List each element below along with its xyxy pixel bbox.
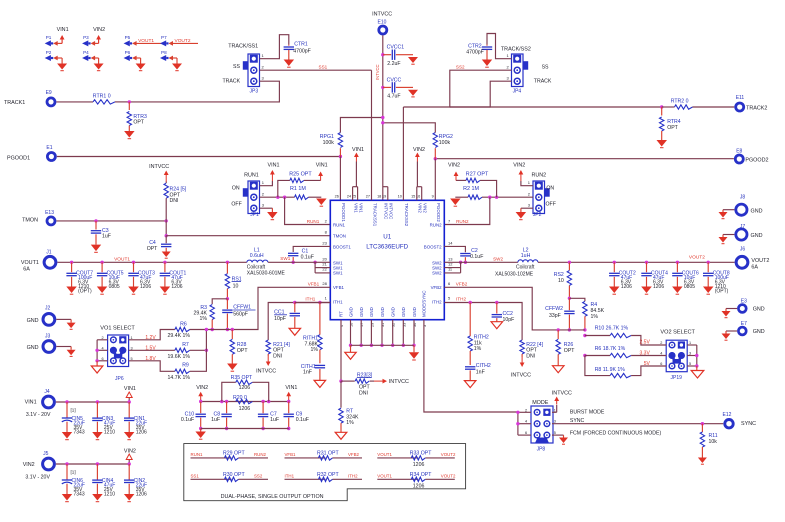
- capacitor C8: [226, 402, 228, 414]
- svg-text:1nF: 1nF: [476, 370, 485, 376]
- capacitor CC1 10pF: [294, 303, 296, 313]
- svg-text:INTVCC: INTVCC: [389, 379, 409, 385]
- svg-text:GND: GND: [27, 318, 39, 324]
- svg-text:E1: E1: [46, 145, 52, 151]
- svg-text:VOUT1: VOUT1: [21, 260, 39, 266]
- svg-text:1.2V: 1.2V: [145, 335, 156, 341]
- wire JP8 common: [518, 411, 531, 413]
- svg-text:GND: GND: [412, 307, 417, 317]
- ground: [128, 126, 130, 132]
- svg-text:ON: ON: [232, 185, 240, 191]
- resistor RTR1 0: [56, 101, 93, 103]
- capacitor C9: [288, 402, 290, 414]
- ground: [553, 366, 565, 373]
- svg-text:RUN1: RUN1: [333, 223, 346, 228]
- svg-text:19.6K 1%: 19.6K 1%: [168, 354, 191, 360]
- svg-text:VOUT2: VOUT2: [441, 452, 456, 457]
- svg-text:VIN2: VIN2: [196, 385, 208, 391]
- svg-text:J4: J4: [44, 389, 50, 395]
- svg-text:GND: GND: [27, 345, 39, 351]
- svg-text:PGOOD2: PGOOD2: [436, 203, 441, 222]
- svg-text:SW1: SW1: [333, 271, 343, 276]
- svg-text:7343: 7343: [74, 492, 85, 498]
- svg-text:TRACKSS1: TRACKSS1: [372, 203, 377, 227]
- svg-text:CVCC: CVCC: [387, 77, 402, 83]
- svg-text:27: 27: [366, 195, 370, 199]
- power flag VIN1: [288, 395, 290, 402]
- svg-text:VIN2: VIN2: [513, 163, 525, 169]
- ground: [288, 50, 290, 60]
- ground: [140, 58, 142, 64]
- ground: [289, 328, 301, 335]
- ground: [227, 364, 238, 371]
- svg-text:0.1uF: 0.1uF: [470, 254, 483, 260]
- svg-text:VFB1: VFB1: [285, 452, 297, 457]
- svg-text:DNI: DNI: [273, 353, 282, 359]
- svg-text:PGOOD1: PGOOD1: [341, 203, 346, 222]
- svg-text:XAL5030-601ME: XAL5030-601ME: [247, 270, 286, 276]
- svg-text:5V: 5V: [644, 361, 651, 367]
- wire TMON: [56, 220, 166, 222]
- svg-text:VIN1: VIN1: [268, 163, 280, 169]
- wire VFB2 net: [444, 287, 585, 330]
- svg-text:6A: 6A: [23, 267, 30, 273]
- svg-text:XAL5030-102ME: XAL5030-102ME: [495, 272, 534, 278]
- svg-text:GND: GND: [348, 307, 353, 317]
- svg-text:VFB1: VFB1: [333, 285, 345, 290]
- ground: [70, 347, 72, 350]
- ground: [200, 429, 202, 432]
- resistor R28 OPT: [231, 328, 234, 331]
- wire JP19 common ground: [687, 344, 697, 346]
- svg-text:TRACK/SS1: TRACK/SS1: [228, 44, 258, 50]
- svg-text:3.3V: 3.3V: [640, 350, 651, 356]
- capacitor C4 OPT: [165, 236, 167, 244]
- svg-text:5: 5: [554, 431, 556, 435]
- wire MODE/SYNC: [424, 320, 518, 412]
- ground JP8 pin FCM: [552, 434, 564, 436]
- svg-text:DNI: DNI: [359, 390, 368, 396]
- svg-text:TRACK: TRACK: [223, 79, 241, 85]
- svg-text:INTVCC: INTVCC: [552, 390, 572, 396]
- svg-text:1206: 1206: [171, 284, 182, 290]
- ground: [62, 432, 72, 439]
- resistor R8 11.9K: [585, 356, 610, 376]
- svg-text:ITH2: ITH2: [348, 474, 358, 479]
- svg-text:INTVCC: INTVCC: [384, 203, 389, 219]
- svg-text:MODE/SYNC: MODE/SYNC: [422, 290, 427, 317]
- svg-text:VIN2: VIN2: [124, 448, 136, 454]
- svg-text:1%: 1%: [311, 347, 319, 353]
- wire TRACK2: [450, 106, 662, 108]
- svg-text:RTR1 0: RTR1 0: [93, 93, 111, 99]
- svg-text:(OPT): (OPT): [715, 288, 729, 294]
- power flag VIN1: [260, 181, 273, 186]
- svg-text:SYNC: SYNC: [741, 421, 756, 427]
- svg-text:OPT: OPT: [667, 125, 678, 131]
- svg-text:SS: SS: [542, 64, 549, 70]
- svg-text:GND: GND: [359, 307, 364, 317]
- svg-text:P1: P1: [46, 35, 52, 40]
- svg-text:SW2: SW2: [493, 257, 503, 262]
- svg-text:4700pF: 4700pF: [466, 50, 484, 56]
- svg-text:VIN2: VIN2: [448, 163, 460, 169]
- ground: [698, 458, 707, 464]
- svg-text:100k: 100k: [439, 140, 451, 146]
- svg-text:CTR1: CTR1: [294, 42, 308, 48]
- ground: [722, 210, 724, 212]
- wire VIN1 input rail: [56, 401, 129, 403]
- wire SW2 bracket: [459, 261, 462, 264]
- ground: [641, 287, 652, 294]
- svg-text:TMON: TMON: [333, 234, 346, 239]
- power flag VIN2: [128, 459, 130, 464]
- ground: [95, 234, 97, 244]
- capacitor CIN3: [96, 400, 99, 403]
- svg-text:3: 3: [131, 346, 133, 350]
- svg-text:2: 2: [102, 336, 104, 340]
- svg-text:SW1: SW1: [280, 256, 290, 261]
- svg-text:1206: 1206: [413, 462, 425, 468]
- ground: [722, 235, 724, 238]
- svg-text:TRACK: TRACK: [534, 79, 552, 85]
- resistor R21 OPT DNI: [266, 340, 270, 354]
- svg-text:OFF: OFF: [546, 202, 556, 208]
- ground: [672, 287, 683, 294]
- ground: [61, 58, 63, 64]
- resistor RPG1 100k: [339, 148, 341, 156]
- svg-text:J2: J2: [45, 306, 51, 312]
- wire PGOOD1: [57, 156, 341, 158]
- svg-text:33pF: 33pF: [549, 313, 561, 319]
- svg-text:R27 OPT: R27 OPT: [466, 172, 489, 178]
- svg-text:CVCC1: CVCC1: [387, 45, 405, 51]
- svg-text:RUN2: RUN2: [254, 452, 267, 457]
- wire INTVCC vertical: [382, 35, 384, 200]
- svg-text:4700pF: 4700pF: [293, 49, 311, 55]
- svg-text:6: 6: [525, 431, 527, 435]
- resistor R25 OPT: [278, 180, 290, 197]
- resistor RTR3 OPT: [128, 102, 130, 110]
- svg-text:19: 19: [382, 195, 386, 199]
- ground: [725, 331, 727, 334]
- resistor R2 1M: [468, 195, 482, 199]
- wire SS2 net: [403, 70, 511, 107]
- svg-text:1210: 1210: [104, 430, 115, 436]
- ground: [128, 287, 139, 294]
- wire ITH1: [268, 303, 295, 341]
- svg-text:P2: P2: [46, 50, 52, 55]
- svg-text:GND: GND: [391, 307, 396, 317]
- svg-text:1uH: 1uH: [521, 253, 531, 259]
- svg-text:TRACKSS2: TRACKSS2: [404, 203, 409, 227]
- svg-text:10pF: 10pF: [274, 316, 286, 322]
- svg-text:1%: 1%: [591, 314, 599, 320]
- capacitor CFFW2 33pF: [568, 298, 570, 310]
- svg-text:RUN2: RUN2: [430, 223, 443, 228]
- svg-text:SS2: SS2: [254, 474, 263, 479]
- svg-text:BURST MODE: BURST MODE: [570, 410, 605, 416]
- svg-text:R30 OPT: R30 OPT: [223, 472, 245, 478]
- svg-text:ITH1: ITH1: [285, 474, 295, 479]
- svg-text:SS2: SS2: [456, 64, 465, 69]
- svg-text:VFB1: VFB1: [308, 282, 320, 287]
- svg-text:R1 1M: R1 1M: [290, 186, 306, 192]
- capacitor CIN1: [128, 400, 131, 403]
- svg-text:VIN1: VIN1: [57, 27, 69, 33]
- svg-text:10: 10: [233, 283, 239, 289]
- resistor R6 29.4K: [129, 330, 175, 340]
- svg-text:CTR2: CTR2: [468, 43, 482, 49]
- wire RUN2 node: [482, 196, 533, 198]
- svg-text:SS1: SS1: [191, 474, 200, 479]
- svg-text:RTR2 0: RTR2 0: [671, 99, 689, 105]
- wire TMON to U1: [165, 221, 167, 236]
- svg-text:VIN1: VIN1: [124, 386, 136, 392]
- svg-text:BOOST1: BOOST1: [333, 245, 351, 250]
- svg-text:0.1uF: 0.1uF: [296, 417, 309, 423]
- svg-text:R2 1M: R2 1M: [463, 186, 479, 192]
- capacitor CVCC1 2.2uF: [381, 53, 384, 56]
- svg-text:VIN1: VIN1: [352, 147, 364, 153]
- resistor R6 18.7K: [583, 354, 586, 357]
- power flag VIN2: [200, 395, 202, 402]
- svg-text:1: 1: [554, 408, 556, 412]
- capacitor CITH2 1nF: [465, 366, 475, 368]
- svg-text:GND: GND: [401, 307, 406, 317]
- svg-text:R6: R6: [180, 321, 187, 327]
- power flag INTVCC: [552, 411, 557, 413]
- ground: [464, 381, 476, 388]
- svg-text:SW2: SW2: [432, 271, 442, 276]
- svg-text:OPT: OPT: [564, 348, 575, 354]
- ground: [486, 50, 488, 60]
- capacitor COUT7: [70, 261, 73, 264]
- dual-phase single output option box: [184, 444, 466, 501]
- ground: [661, 131, 663, 140]
- wire ITH2: [444, 303, 522, 341]
- ground: [609, 287, 620, 294]
- svg-text:VIN2: VIN2: [423, 203, 428, 213]
- svg-text:Coilcraft: Coilcraft: [516, 264, 535, 270]
- svg-text:R33 OPT: R33 OPT: [410, 451, 432, 457]
- svg-text:10k: 10k: [709, 439, 718, 445]
- ground: [176, 58, 178, 64]
- capacitor C2 0.1uF: [444, 246, 465, 252]
- svg-text:SS: SS: [233, 64, 240, 70]
- svg-text:P7: P7: [161, 35, 167, 40]
- svg-text:VO2 SELECT: VO2 SELECT: [660, 330, 695, 336]
- ground: [408, 54, 414, 56]
- svg-text:3: 3: [689, 352, 691, 356]
- svg-text:2.5V: 2.5V: [640, 340, 651, 346]
- wire INTVCC pins: [387, 187, 389, 201]
- svg-text:1206: 1206: [621, 284, 632, 290]
- svg-text:1206: 1206: [136, 492, 147, 498]
- svg-text:VOUT2: VOUT2: [175, 38, 191, 44]
- ground: [70, 319, 72, 322]
- svg-text:J3: J3: [45, 334, 51, 340]
- svg-text:1206: 1206: [140, 284, 151, 290]
- svg-text:VFB2: VFB2: [348, 452, 360, 457]
- resistor R1 1M: [295, 195, 309, 199]
- svg-text:1nF: 1nF: [303, 370, 312, 376]
- svg-text:VFB2: VFB2: [431, 285, 443, 290]
- svg-text:3: 3: [554, 420, 556, 424]
- wire bypass gnd rail: [201, 428, 289, 430]
- ground: [160, 287, 171, 294]
- svg-text:R9: R9: [182, 362, 189, 368]
- capacitor COUT1: [163, 261, 166, 264]
- capacitor COUT5: [100, 261, 103, 264]
- svg-text:10: 10: [398, 195, 402, 199]
- svg-text:DNI: DNI: [170, 198, 179, 204]
- svg-text:R20 0: R20 0: [233, 395, 247, 401]
- svg-text:R35 OPT: R35 OPT: [231, 375, 253, 381]
- resistor RTR4 OPT: [661, 107, 663, 116]
- ground: [92, 432, 103, 439]
- svg-text:P8: P8: [161, 50, 167, 55]
- svg-text:7343: 7343: [74, 430, 85, 436]
- svg-text:29.4K 1%: 29.4K 1%: [168, 333, 191, 339]
- capacitor CIN5: [65, 400, 68, 403]
- svg-text:1206: 1206: [653, 284, 664, 290]
- svg-text:15: 15: [411, 195, 415, 199]
- ground: [92, 494, 103, 501]
- wire RUN2 to U1: [444, 197, 490, 224]
- svg-text:VIN1: VIN1: [358, 203, 363, 213]
- resistor R27 OPT: [480, 180, 497, 197]
- svg-text:LTC3636EUFD: LTC3636EUFD: [366, 244, 408, 251]
- svg-text:1uF: 1uF: [211, 417, 220, 423]
- svg-text:VIN2: VIN2: [23, 462, 35, 468]
- svg-text:R25 OPT: R25 OPT: [289, 172, 312, 178]
- svg-text:ITH1: ITH1: [305, 297, 315, 302]
- svg-text:3.1V - 20V: 3.1V - 20V: [25, 475, 50, 481]
- ground: [98, 58, 100, 64]
- svg-text:0805: 0805: [684, 284, 695, 290]
- svg-text:18: 18: [377, 195, 381, 199]
- svg-text:VOUT1: VOUT1: [114, 256, 130, 262]
- capacitor COUT8: [707, 261, 710, 264]
- resistor RTR2 0: [662, 106, 675, 108]
- svg-text:OPT: OPT: [147, 246, 158, 252]
- svg-text:24: 24: [347, 195, 351, 199]
- wire RT pin: [340, 320, 342, 381]
- svg-text:2.2uF: 2.2uF: [387, 61, 400, 67]
- wire SW1 bracket: [313, 261, 316, 264]
- svg-text:VO1 SELECT: VO1 SELECT: [100, 326, 135, 332]
- svg-text:RUN1: RUN1: [244, 172, 259, 178]
- capacitor CFFW1 560pF: [226, 299, 228, 309]
- resistor R7 19.6K: [129, 349, 175, 351]
- capacitor CIN6: [65, 462, 68, 465]
- svg-text:MODE: MODE: [532, 400, 549, 406]
- svg-text:PGOOD2: PGOOD2: [745, 158, 768, 164]
- svg-text:1uF: 1uF: [270, 417, 279, 423]
- svg-text:JP2: JP2: [533, 212, 542, 218]
- svg-text:R7: R7: [182, 342, 189, 348]
- svg-text:J6: J6: [740, 247, 746, 253]
- svg-text:INTVCC: INTVCC: [149, 164, 169, 170]
- svg-text:4.7uF: 4.7uF: [387, 94, 400, 100]
- svg-text:GND: GND: [751, 233, 763, 239]
- capacitor CVCC 4.7uF: [381, 86, 384, 89]
- resistor R9 14.7K: [129, 361, 175, 372]
- wire JP4 pin1 to CTR2: [487, 34, 512, 59]
- svg-text:E11: E11: [736, 95, 745, 101]
- svg-text:TMON: TMON: [22, 218, 38, 224]
- ground: [408, 86, 414, 88]
- svg-text:FCM (FORCED CONTINUOUS MODE): FCM (FORCED CONTINUOUS MODE): [570, 430, 662, 436]
- svg-text:P5: P5: [125, 35, 131, 40]
- svg-text:1206: 1206: [239, 385, 251, 391]
- resistor RT 324K: [340, 381, 342, 408]
- svg-text:10pF: 10pF: [503, 317, 515, 323]
- ground JP2 pin3: [521, 207, 533, 209]
- svg-text:R34 OPT: R34 OPT: [410, 472, 432, 478]
- power flag VIN2 to U1: [416, 187, 418, 201]
- power flag VIN2: [521, 181, 533, 186]
- capacitor CIN4: [96, 462, 99, 465]
- svg-text:2: 2: [660, 341, 662, 345]
- svg-text:(OPT): (OPT): [78, 288, 92, 294]
- ground: [97, 287, 108, 294]
- svg-text:JP6: JP6: [115, 376, 124, 382]
- svg-text:VOUT1: VOUT1: [377, 452, 392, 457]
- svg-text:GND: GND: [751, 208, 763, 214]
- wire JP3 pin1 to CTR1: [260, 35, 289, 59]
- ground: [165, 248, 167, 252]
- capacitor CC2 10pF: [496, 303, 498, 314]
- svg-text:INTVCC: INTVCC: [372, 12, 392, 18]
- svg-text:R8 11.9K 1%: R8 11.9K 1%: [595, 367, 626, 373]
- power flag VIN2: [455, 175, 457, 181]
- svg-text:5: 5: [131, 357, 133, 361]
- svg-text:OFF: OFF: [231, 202, 241, 208]
- svg-text:1%: 1%: [346, 420, 354, 426]
- svg-text:VIN1: VIN1: [316, 163, 328, 169]
- svg-text:[1]: [1]: [71, 408, 76, 413]
- wire TRACK to TRACK2 line: [450, 81, 512, 107]
- svg-text:VIN2: VIN2: [413, 147, 425, 153]
- svg-text:4: 4: [102, 346, 104, 350]
- svg-text:R32 OPT: R32 OPT: [317, 472, 339, 478]
- svg-text:VIN2: VIN2: [418, 203, 423, 213]
- ground: [62, 494, 72, 501]
- power flag INTVCC right: [374, 380, 384, 382]
- power flag INTVCC down: [521, 357, 523, 364]
- ground: [316, 199, 327, 206]
- wire RUN1 to U1: [285, 197, 331, 224]
- wire PGOOD2: [435, 158, 734, 160]
- resistor R24 OPT DNI: [165, 182, 167, 184]
- svg-text:TRACK/SS2: TRACK/SS2: [501, 46, 531, 52]
- wire VIN bypass rail: [201, 401, 289, 403]
- resistor RITH1 7.68K: [319, 303, 321, 335]
- svg-text:10: 10: [558, 278, 564, 284]
- resistor R20 0: [236, 399, 253, 403]
- capacitor COUT2: [613, 261, 616, 264]
- svg-text:SYNC: SYNC: [570, 418, 585, 424]
- svg-text:1206: 1206: [136, 430, 147, 436]
- ground: [703, 287, 714, 294]
- resistor R11 10k: [701, 422, 704, 425]
- wire VFB1 net: [190, 287, 331, 329]
- power flag VIN2: [98, 38, 100, 43]
- svg-text:RUN1: RUN1: [307, 219, 320, 224]
- svg-text:3.1V - 20V: 3.1V - 20V: [26, 412, 51, 418]
